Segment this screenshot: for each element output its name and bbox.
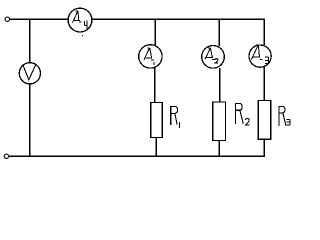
wire branch3 lower xyxy=(263,139,265,156)
resistor R1 body xyxy=(151,103,162,138)
wire branch3 middle xyxy=(263,67,265,100)
ammeter A1 circle xyxy=(139,45,162,68)
terminal top-left xyxy=(5,17,9,21)
ammeter A3 letter A xyxy=(251,45,262,60)
wire bottom bus xyxy=(9,155,265,157)
ammeter Aч subscript ч xyxy=(85,20,87,28)
resistor R2 label subscript 2 xyxy=(246,119,250,125)
resistor R2 body xyxy=(213,102,226,141)
wire voltmeter branch lower xyxy=(29,84,31,156)
resistor R2 label R xyxy=(235,104,243,124)
voltmeter letter V xyxy=(23,65,35,80)
ammeter A2 letter A xyxy=(205,48,214,59)
ammeter A2 subscript 2 xyxy=(215,59,218,64)
ammeter Aч letter A xyxy=(72,11,81,23)
voltmeter V circle xyxy=(19,63,40,84)
ammeter A1 subscript 1 xyxy=(153,62,155,65)
resistor R3 label subscript 3 xyxy=(286,119,290,125)
ammeter A3 subscript 3 xyxy=(265,57,269,63)
ammeter A1 letter A xyxy=(144,48,154,60)
resistor R1 label subscript 1 xyxy=(179,122,181,128)
wire top right segment with corner down to A3 xyxy=(92,19,265,45)
wire branch1 upper xyxy=(154,19,156,45)
resistor R3 body xyxy=(258,101,271,140)
wire branch1 middle xyxy=(154,68,156,103)
ammeter A3 circle xyxy=(249,45,271,67)
wire branch2 middle xyxy=(219,68,221,102)
terminal bottom-left xyxy=(4,154,8,158)
wire branch2 upper xyxy=(218,19,220,46)
ammeter A2 circle xyxy=(202,46,225,69)
ammeter Aч circle (main) xyxy=(68,8,92,32)
stray dot below main ammeter xyxy=(82,35,83,36)
wire branch1 lower xyxy=(155,138,157,157)
resistor R1 label R xyxy=(171,106,178,124)
wire branch2 lower xyxy=(218,141,220,157)
wire top left segment xyxy=(10,18,69,20)
resistor R3 label R xyxy=(279,106,286,126)
wire voltmeter branch upper xyxy=(29,19,31,63)
